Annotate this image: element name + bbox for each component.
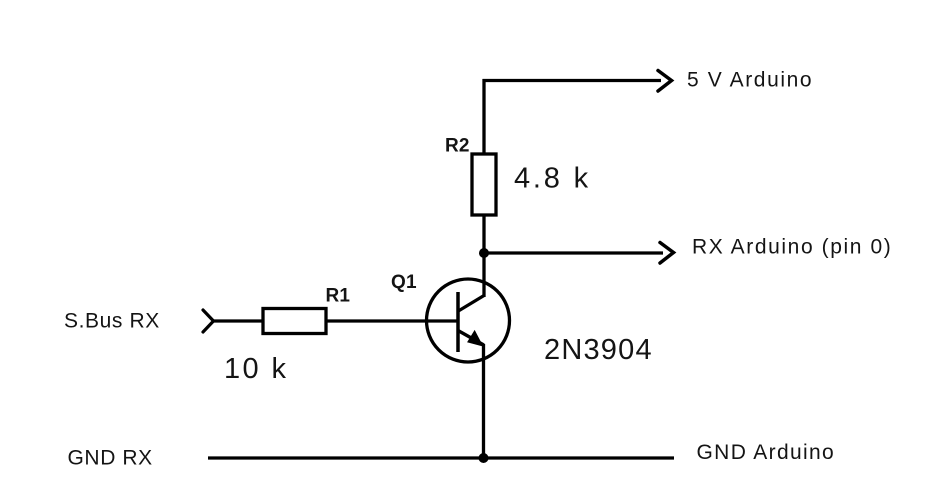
- wire collector rail vertical (5V corner down to R2 top): [482, 79, 485, 154]
- node junction ground: [479, 453, 489, 463]
- svg-text:10 k: 10 k: [224, 353, 288, 385]
- transistor Q1 circle: [427, 279, 510, 362]
- wire R1 to base: [326, 319, 458, 322]
- svg-text:2N3904: 2N3904: [544, 334, 653, 366]
- transistor collector diagonal: [458, 296, 485, 312]
- wire chevron to R1: [214, 319, 264, 322]
- wire ground rail: [208, 456, 674, 459]
- wire emitter vertical down to ground: [482, 344, 485, 459]
- node junction RX: [479, 248, 489, 258]
- arrowhead 5V: [658, 71, 672, 92]
- resistor R2: [472, 154, 496, 215]
- transistor base bar: [456, 292, 460, 352]
- input chevron S.Bus: [203, 310, 214, 332]
- svg-text:S.Bus RX: S.Bus RX: [64, 310, 160, 333]
- svg-text:4.8 k: 4.8 k: [514, 163, 591, 195]
- svg-text:R1: R1: [326, 286, 351, 307]
- svg-text:GND Arduino: GND Arduino: [697, 441, 836, 464]
- svg-text:GND RX: GND RX: [68, 447, 153, 470]
- wire R2 bottom to collector: [482, 215, 485, 297]
- wire 5V rail horizontal: [483, 79, 662, 82]
- resistor R1: [263, 309, 326, 334]
- svg-text:R2: R2: [445, 136, 470, 157]
- wire RX Arduino horizontal: [484, 251, 663, 254]
- svg-text:RX Arduino (pin 0): RX Arduino (pin 0): [692, 236, 892, 259]
- emitter arrowhead: [468, 332, 482, 346]
- transistor emitter diagonal: [458, 331, 484, 346]
- svg-text:Q1: Q1: [391, 272, 417, 293]
- svg-text:5 V Arduino: 5 V Arduino: [687, 69, 813, 92]
- arrowhead RX: [660, 243, 674, 264]
